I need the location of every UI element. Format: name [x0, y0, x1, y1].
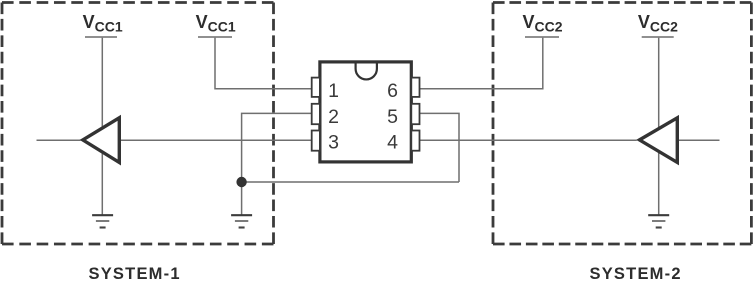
power rail bar VCC1 (left)	[85, 36, 117, 38]
svg-text:SYSTEM-2: SYSTEM-2	[590, 265, 681, 281]
wire: IC pin 2 to ground net	[242, 113, 312, 215]
wire: VCC1 rail down through buffer to ground	[101, 37, 103, 215]
svg-text:SYSTEM-1: SYSTEM-1	[89, 265, 180, 281]
power rail bar VCC2 (right)	[642, 36, 674, 38]
svg-text:3: 3	[328, 132, 339, 154]
wire: SYSTEM-2 buffer output stub	[677, 139, 720, 141]
buffer amplifier (SYSTEM-2)	[640, 118, 678, 163]
pin number 2	[328, 106, 339, 128]
power rail bar VCC1 (right)	[198, 36, 232, 38]
svg-text:1: 1	[328, 80, 339, 102]
IC pin 4	[411, 131, 419, 151]
IC pin-1 index notch	[356, 63, 377, 79]
IC isolator body U1	[320, 62, 411, 162]
pin number 3	[328, 132, 339, 154]
system-2 dashed boundary box	[493, 3, 751, 245]
wire: IC pin 6 to VCC2 rail	[419, 37, 543, 89]
wire: VCC1 rail to IC pin 1	[215, 37, 312, 89]
wire: SYSTEM-1 input stub to buffer apex	[37, 139, 81, 141]
wire: ground net junction to pin 5 loop	[242, 181, 459, 183]
svg-text:4: 4	[387, 132, 398, 154]
junction dot (ground net)	[236, 177, 246, 187]
label VCC2 (left)	[523, 12, 563, 35]
system-1 dashed boundary box	[2, 3, 274, 245]
power rail bar VCC2 (left)	[525, 36, 559, 38]
wire: IC pin 5 loop down	[419, 113, 459, 182]
IC pin 2	[312, 104, 320, 124]
pin number 5	[387, 106, 398, 128]
ground (SYSTEM-2 buffer)	[648, 215, 669, 227]
svg-text:2: 2	[328, 106, 339, 128]
wire: VCC2 rail down through buffer to ground	[658, 37, 660, 215]
pin number 1	[328, 80, 339, 102]
label VCC1 (right)	[196, 12, 236, 35]
label VCC1 (left)	[83, 12, 123, 35]
IC pin 6	[411, 78, 419, 97]
buffer amplifier (SYSTEM-1)	[83, 118, 120, 163]
svg-text:5: 5	[387, 106, 398, 128]
IC pin 1	[312, 78, 320, 97]
pin number 4	[387, 132, 398, 154]
IC pin 3	[312, 131, 320, 151]
pin number 6	[387, 80, 398, 102]
label SYSTEM-2	[590, 265, 681, 283]
wire: IC pin 4 to SYSTEM-2 buffer apex	[419, 139, 637, 141]
wire: buffer output to IC pin 3	[119, 139, 312, 141]
svg-text:6: 6	[387, 80, 398, 102]
label SYSTEM-1	[89, 265, 180, 283]
ground (IC pin 2 net)	[231, 215, 252, 227]
IC pin 5	[411, 104, 419, 124]
label VCC2 (right)	[638, 12, 678, 35]
ground (SYSTEM-1 buffer)	[92, 215, 113, 227]
